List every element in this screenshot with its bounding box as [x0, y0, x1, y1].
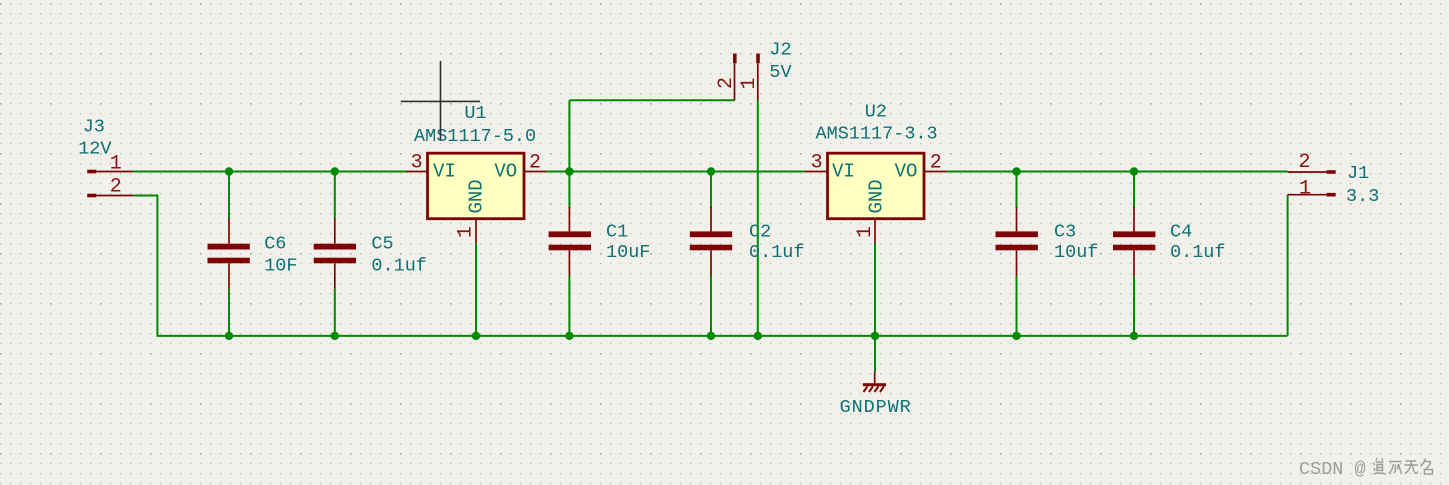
junction node bus at U1 GND: [472, 332, 480, 340]
svg-text:C3: C3: [1054, 221, 1076, 242]
connector J2: [715, 40, 791, 101]
svg-text:J2: J2: [769, 40, 791, 61]
connector J1: [1288, 151, 1380, 207]
wire ground bus horizontal: [157, 335, 1288, 337]
capacitor C3: [996, 207, 1099, 276]
junction node top at C4: [1130, 167, 1138, 175]
wire C5 bottom lead: [334, 289, 336, 336]
junction node top at C6: [225, 167, 233, 175]
svg-text:C5: C5: [371, 234, 393, 255]
cursor crosshair: [401, 61, 480, 140]
junction node bus at J2 pin1: [754, 332, 762, 340]
J1 pin 2: [1288, 151, 1336, 174]
svg-text:0.1uf: 0.1uf: [749, 242, 805, 263]
svg-text:5V: 5V: [769, 62, 791, 83]
regulator U1 AMS1117-5.0: [406, 103, 546, 243]
junction node bus at C4: [1130, 332, 1138, 340]
svg-text:VI: VI: [433, 160, 456, 182]
junction node bus at C2: [707, 332, 715, 340]
svg-text:GND: GND: [866, 179, 888, 213]
J2 pin 2: [715, 54, 738, 101]
svg-text:1: 1: [854, 226, 877, 238]
wire C6 top lead: [228, 172, 230, 220]
svg-text:U1: U1: [464, 103, 486, 124]
capacitor C5: [314, 219, 427, 289]
wire U2 VO to J1 pin2: [947, 171, 1288, 173]
svg-text:CSDN @: CSDN @: [1299, 459, 1366, 480]
J1 pin 1: [1288, 178, 1336, 201]
svg-text:C4: C4: [1170, 221, 1192, 242]
junction node top at C1 / 5V: [565, 167, 573, 175]
wire C3 bottom lead: [1016, 276, 1018, 336]
wire J2 pin2 vertical drop to node at C1: [568, 100, 570, 171]
wire C1 top lead: [568, 172, 570, 209]
svg-text:VO: VO: [895, 160, 918, 182]
U1 pin 3 VI: [406, 152, 456, 183]
junction node bus at C5: [331, 332, 339, 340]
wire C2 bottom lead: [710, 276, 712, 336]
wire C1 bottom lead: [568, 276, 570, 336]
junction node top at C2: [707, 167, 715, 175]
junction node bus at U2 GND / GNDPWR: [871, 332, 879, 340]
J3 pin 2: [87, 176, 133, 199]
capacitor C6: [208, 219, 298, 289]
connector J3: [78, 116, 133, 198]
svg-text:1: 1: [738, 77, 761, 89]
svg-text:GNDPWR: GNDPWR: [840, 397, 912, 418]
J2 pin 1: [738, 54, 761, 101]
J3 pin 1: [87, 153, 133, 176]
regulator U2 AMS1117-3.3: [805, 102, 947, 244]
svg-text:0.1uf: 0.1uf: [1170, 242, 1226, 263]
svg-text:AMS1117-3.3: AMS1117-3.3: [816, 124, 938, 145]
svg-text:GND: GND: [466, 179, 488, 213]
watermark CSDN @道亦无名: [1299, 458, 1432, 480]
junction node top at C5: [331, 167, 339, 175]
capacitor C2: [690, 207, 805, 276]
svg-text:2: 2: [930, 152, 942, 175]
wire U2 GND pin to ground bus: [874, 243, 876, 336]
svg-text:10F: 10F: [264, 256, 297, 277]
svg-text:10uf: 10uf: [1054, 242, 1098, 263]
wire C3 top lead: [1016, 172, 1018, 209]
svg-text:1: 1: [1299, 178, 1311, 201]
svg-text:0.1uf: 0.1uf: [371, 256, 427, 277]
wire C6 bottom lead: [228, 289, 230, 336]
wire U1 GND pin to ground bus: [475, 243, 477, 336]
capacitor C4: [1113, 207, 1226, 276]
wire C2 top lead: [710, 172, 712, 209]
svg-text:2: 2: [1299, 151, 1311, 174]
ground GNDPWR: [840, 372, 912, 418]
svg-text:3: 3: [411, 152, 423, 175]
svg-text:VI: VI: [832, 160, 855, 182]
wire C4 bottom lead: [1133, 276, 1135, 336]
svg-text:1: 1: [110, 153, 122, 176]
svg-text:3: 3: [811, 152, 823, 175]
U1 pin 1 GND: [455, 179, 488, 243]
U2 pin 2 VO: [895, 152, 947, 183]
wire J2 pin1 vertical to ground bus: [757, 100, 759, 336]
svg-text:U2: U2: [865, 102, 887, 123]
svg-text:2: 2: [110, 176, 122, 199]
wire VIN: J3 pin1 to U1 VI: [133, 171, 406, 173]
svg-text:C6: C6: [264, 234, 286, 255]
svg-text:12V: 12V: [78, 139, 111, 160]
U2 pin 3 VI: [805, 152, 855, 183]
junction node bus at C1: [565, 332, 573, 340]
svg-text:1: 1: [455, 226, 478, 238]
wire J1 pin1 down to ground bus: [1287, 195, 1289, 336]
svg-text:AMS1117-5.0: AMS1117-5.0: [414, 126, 536, 147]
junction node bus at C6: [225, 332, 233, 340]
svg-text:J1: J1: [1347, 163, 1369, 184]
wire C5 top lead: [334, 172, 336, 220]
svg-text:J3: J3: [83, 116, 105, 137]
U1 body: [428, 153, 525, 219]
junction node top at C3: [1012, 167, 1020, 175]
svg-text:C1: C1: [606, 221, 628, 242]
wire C4 top lead: [1133, 172, 1135, 209]
svg-text:2: 2: [715, 77, 738, 89]
U2 pin 1 GND: [854, 179, 888, 243]
wire J3 pin2 down to ground bus: [133, 196, 157, 336]
svg-text:VO: VO: [494, 160, 517, 182]
capacitor C1: [549, 207, 651, 276]
wire J2 pin2 to 5V node: horizontal: [569, 99, 734, 101]
junction node bus at C3: [1012, 332, 1020, 340]
U1 pin 2 VO: [494, 152, 546, 183]
svg-text:10uF: 10uF: [606, 242, 650, 263]
svg-text:3.3: 3.3: [1346, 186, 1379, 207]
svg-text:C2: C2: [749, 221, 771, 242]
U2 body: [828, 153, 925, 219]
wire ground bus to GNDPWR symbol: [874, 336, 876, 372]
svg-text:2: 2: [529, 152, 541, 175]
wire U1 VO to U2 VI: [546, 171, 805, 173]
